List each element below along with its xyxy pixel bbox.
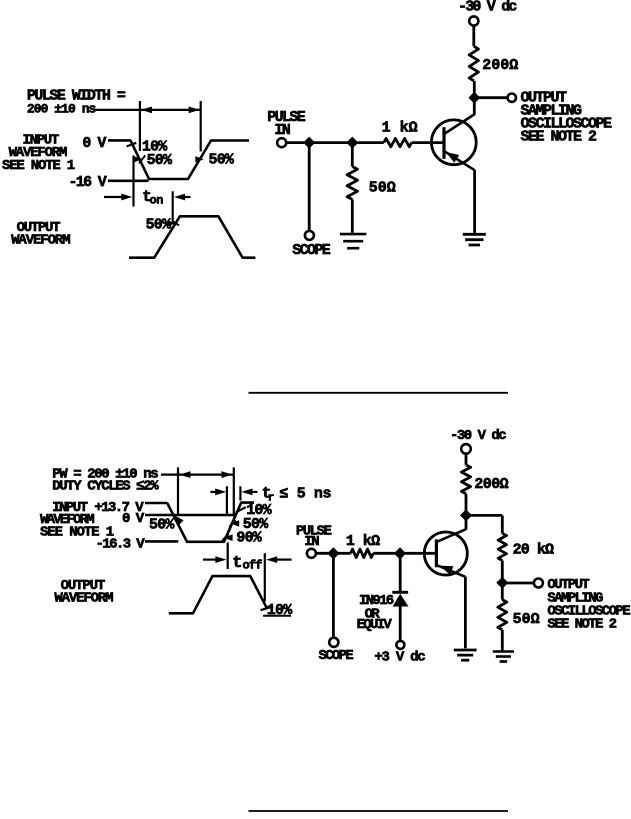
wire: 1k to base (top) <box>412 141 444 144</box>
wire: output node to 50 ohm (bottom) <box>501 587 504 599</box>
terminal: scope (bottom) <box>329 638 338 647</box>
svg-text:0 V: 0 V <box>82 135 106 152</box>
t_r right reference line <box>239 486 241 500</box>
terminal: +3 V dc <box>396 641 404 649</box>
label: 200 ohm (top) <box>482 57 518 74</box>
label: 50 ohm (bottom) <box>513 611 540 628</box>
svg-text:IN: IN <box>274 122 290 139</box>
label: PW = 200 ±10 ns / DUTY CYCLES ≤2% <box>52 466 159 494</box>
node: scope junction (bottom) <box>327 547 339 559</box>
svg-text:-30 V dc: -30 V dc <box>458 0 517 16</box>
resistor 20 kohm <box>498 533 506 560</box>
terminal: output (bottom) <box>534 579 543 588</box>
PW left arrowhead (bottom) <box>179 471 190 478</box>
t_on right arrow <box>174 194 190 201</box>
label: 50% (falling edge) <box>147 152 173 169</box>
50% mark on rising edge (bottom) <box>229 520 239 527</box>
resistor 1 kohm (top) <box>384 138 412 146</box>
resistor 50 ohm (bottom) <box>498 600 507 630</box>
label: 1 kohm (top) <box>382 120 418 137</box>
t_r left reference line <box>226 486 228 514</box>
label: t_off <box>232 554 262 573</box>
wire: supply to R 200 (top) <box>472 26 475 47</box>
svg-text:DUTY CYCLES ≤2%: DUTY CYCLES ≤2% <box>52 479 159 495</box>
label: SCOPE (bottom) <box>319 648 354 664</box>
label: PULSE IN (bottom) <box>296 523 332 550</box>
svg-text:20 kΩ: 20 kΩ <box>513 542 554 559</box>
svg-text:EQUIV: EQUIV <box>357 617 393 633</box>
resistor 200 ohm (bottom) <box>461 465 470 494</box>
transistor Q1 emitter lead <box>444 151 474 170</box>
svg-text:SEE NOTE 2: SEE NOTE 2 <box>547 617 616 633</box>
t_on right reference line <box>172 191 174 222</box>
label: 50% (bottom rising edge) <box>243 516 269 533</box>
node: collector junction (top) <box>468 92 480 104</box>
terminal: -30 V dc (top) <box>469 16 478 25</box>
diode IN916 body <box>393 594 409 607</box>
label: 10% underlined <box>263 602 293 619</box>
label: t_on <box>142 188 163 207</box>
svg-text:off: off <box>243 559 263 573</box>
svg-text:SEE NOTE 1: SEE NOTE 1 <box>2 158 75 174</box>
label: IN916 OR EQUIV <box>357 593 394 633</box>
label: OUTPUT WAVEFORM (top) <box>11 220 70 248</box>
wire: output node to terminal (bottom) <box>502 582 534 585</box>
transistor Q2 base bar <box>435 539 438 567</box>
pulse-width right extension line <box>200 101 202 152</box>
svg-text:-30 V dc: -30 V dc <box>450 428 506 444</box>
input waveform (top) <box>131 140 250 179</box>
svg-text:0 V: 0 V <box>122 511 145 527</box>
t_off left arrow <box>203 556 226 563</box>
t_off right reference line <box>264 553 266 601</box>
wire: R 200 to collector node (top) <box>473 81 476 98</box>
transistor Q1 circle <box>431 120 476 165</box>
svg-text:≤ 5 ns: ≤ 5 ns <box>280 485 332 502</box>
svg-text:50%: 50% <box>209 152 235 169</box>
svg-text:WAVEFORM: WAVEFORM <box>11 232 70 248</box>
t_r dimension right <box>241 489 257 496</box>
svg-text:-16.3 V: -16.3 V <box>96 536 146 552</box>
label: OUTPUT WAVEFORM (bottom) <box>54 578 113 606</box>
svg-text:SEE NOTE 2: SEE NOTE 2 <box>521 129 598 146</box>
diode IN916 cathode bar <box>392 591 408 594</box>
terminal: pulse in (top) <box>277 138 286 147</box>
ground: 50 ohm branch (bottom) <box>493 652 514 662</box>
wire: 20k branch down <box>501 515 504 533</box>
transistor Q2 circle <box>424 532 467 575</box>
wire: collector node to 20k branch <box>466 514 502 517</box>
svg-text:on: on <box>150 194 164 208</box>
label: OUTPUT SAMPLING OSCILLOSCOPE SEE NOTE 2 (bottom) <box>547 577 630 632</box>
svg-text:+3 V dc: +3 V dc <box>374 649 425 665</box>
t_off right arrow <box>266 556 291 563</box>
wire: pulse in to 1k (bottom) <box>316 552 351 555</box>
wire: emitter to ground (bottom) <box>464 577 467 649</box>
svg-text:90%: 90% <box>236 530 262 547</box>
PW right extension line (bottom) <box>233 467 235 516</box>
svg-text:WAVEFORM: WAVEFORM <box>54 590 113 606</box>
label: INPUT WAVEFORM SEE NOTE 1 (bottom) <box>40 500 114 540</box>
label: 50% (rising edge) <box>209 152 235 169</box>
terminal: scope (top) <box>305 231 314 240</box>
t_off left reference line <box>227 543 229 570</box>
pulse-width dimension line <box>95 109 201 111</box>
svg-text:50%: 50% <box>147 152 173 169</box>
pulse-width left arrowhead <box>141 107 152 114</box>
node: output junction (bottom) <box>496 577 508 589</box>
svg-text:-16 V: -16 V <box>69 174 107 191</box>
svg-text:1 kΩ: 1 kΩ <box>346 533 380 550</box>
90% mark on rising edge (bottom) <box>222 534 232 541</box>
transistor Q2 emitter lead <box>437 565 466 577</box>
t_on left arrow <box>104 194 132 201</box>
svg-text:200 ±10 ns: 200 ±10 ns <box>27 102 97 117</box>
50% mark at 0V crossing <box>175 516 183 526</box>
wire: junction to scope terminal (bottom) <box>332 553 335 637</box>
transistor Q2 collector lead <box>437 520 466 542</box>
10% tick on output falling edge <box>261 606 274 610</box>
separator line (bottom) <box>249 810 509 812</box>
svg-text:50%: 50% <box>149 516 175 533</box>
label: PULSE WIDTH = 200 ±10 ns <box>27 87 126 116</box>
label: 1 kohm (bottom) <box>346 533 380 550</box>
label: 50% (output) <box>146 217 172 234</box>
wire: supply to R 200 (bottom) <box>465 454 468 465</box>
wire: junction to diode <box>399 553 402 591</box>
svg-text:50Ω: 50Ω <box>369 179 396 196</box>
label: t_r ≤ 5 ns <box>262 485 332 505</box>
label: -30 V dc (top) <box>458 0 517 16</box>
label line: -16 V <box>69 174 149 191</box>
t_on left reference line <box>132 156 134 207</box>
svg-text:1 kΩ: 1 kΩ <box>382 120 418 137</box>
label line: 0 V (bottom) <box>122 511 233 527</box>
50% mark on rising edge <box>195 156 204 163</box>
wire: junction to scope terminal (top) <box>308 143 311 231</box>
50% mark on falling edge <box>134 155 145 163</box>
resistor 50 ohm (top) <box>347 167 357 200</box>
0 V reference line <box>108 139 131 142</box>
wire: junction to 50 ohm (top) <box>351 143 354 167</box>
label: PULSE IN (top) <box>267 109 306 139</box>
label line: +13.7 V <box>94 500 167 516</box>
wire: R 200 to collector node (bottom) <box>465 494 468 511</box>
label: OUTPUT SAMPLING OSCILLOSCOPE SEE NOTE 2 (top) <box>521 89 613 145</box>
svg-text:200Ω: 200Ω <box>474 476 508 493</box>
terminal: -30 V dc (bottom) <box>461 444 471 454</box>
ground: emitter (bottom) <box>454 650 477 660</box>
label: -30 V dc (bottom) <box>450 428 506 444</box>
label: 10% (bottom) <box>246 502 272 519</box>
PW right arrowhead (bottom) <box>222 471 233 478</box>
label: 50% (bottom falling edge) <box>149 516 175 533</box>
wire: 50 ohm to ground (bottom) <box>501 630 504 651</box>
svg-text:50Ω: 50Ω <box>513 611 540 628</box>
svg-text:200Ω: 200Ω <box>482 57 518 74</box>
label: 0 V <box>82 135 106 152</box>
output waveform (bottom) <box>169 576 267 613</box>
50% mark on output rising edge <box>168 221 179 227</box>
wire: diode to +3V terminal <box>399 607 402 642</box>
label: 90% (bottom) <box>236 530 262 547</box>
10% mark on rising edge (bottom) <box>236 507 246 512</box>
pulse-width left extension line <box>139 101 141 151</box>
wire: collector node to output terminal (top) <box>474 96 508 99</box>
input waveform (bottom) <box>167 503 254 542</box>
output waveform (top) <box>129 216 255 257</box>
PW left extension line (bottom) <box>177 467 179 514</box>
node: scope junction (top) <box>303 137 315 149</box>
label: 10% <box>142 138 168 155</box>
node: diode junction (bottom) <box>394 547 406 559</box>
label: 200 ohm (bottom) <box>474 476 508 493</box>
ground: emitter (top) <box>463 234 486 245</box>
svg-text:SCOPE: SCOPE <box>292 242 331 259</box>
transistor Q1 collector lead <box>444 102 474 134</box>
label: 50 ohm (top) <box>369 179 396 196</box>
ground: 50 ohm branch (top) <box>340 234 367 248</box>
terminal: output (top) <box>508 94 516 102</box>
PW dimension line (bottom) <box>161 474 234 476</box>
transistor Q1 base bar <box>442 127 445 159</box>
separator line (middle) <box>249 392 509 394</box>
label: +3 V dc <box>374 649 425 665</box>
wire: 20k to output node <box>501 561 504 579</box>
10% tick on falling edge <box>127 143 137 147</box>
node: 50 ohm junction (top) <box>346 137 358 149</box>
wire: emitter to ground (top) <box>473 170 476 234</box>
label line: -16.3 V <box>96 536 179 552</box>
wire: pulse in to 1k (top) <box>286 141 384 144</box>
svg-text:SCOPE: SCOPE <box>319 648 354 664</box>
svg-text:t: t <box>232 554 241 573</box>
node: collector junction (bottom) <box>460 509 472 521</box>
label: SCOPE (top) <box>292 242 331 259</box>
t_r dimension left <box>210 489 226 496</box>
terminal: pulse in (bottom) <box>307 549 316 558</box>
label: 20 kohm <box>513 542 554 559</box>
resistor 1 kohm (bottom) <box>351 549 374 557</box>
resistor 200 ohm (top) <box>469 46 478 81</box>
wire: 50 ohm to ground (top) <box>351 199 354 232</box>
pulse-width right arrowhead <box>189 107 200 114</box>
wire: 1k to base (bottom) <box>373 552 436 555</box>
svg-text:50%: 50% <box>146 217 172 234</box>
label: INPUT WAVEFORM SEE NOTE 1 <box>2 133 75 174</box>
